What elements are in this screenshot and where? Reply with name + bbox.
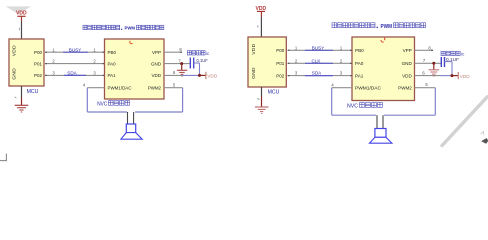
svg-text:VDD: VDD xyxy=(402,74,412,79)
svg-text:VPP: VPP xyxy=(403,48,412,53)
svg-text:SDA: SDA xyxy=(312,71,322,76)
svg-text:BUSY: BUSY xyxy=(69,47,82,52)
svg-text:PWM2: PWM2 xyxy=(148,86,162,91)
svg-text:PWM: PWM xyxy=(381,24,393,30)
svg-text:GND: GND xyxy=(12,68,18,80)
svg-text:P00: P00 xyxy=(34,50,43,55)
svg-text:PWM2: PWM2 xyxy=(398,86,412,91)
svg-text:CLK: CLK xyxy=(312,58,322,63)
svg-text:0.1UF: 0.1UF xyxy=(197,58,209,63)
svg-text:PA0: PA0 xyxy=(108,61,117,66)
svg-text:VDD: VDD xyxy=(251,43,257,54)
svg-text:P02: P02 xyxy=(34,73,43,78)
svg-text:SDA: SDA xyxy=(67,71,77,76)
svg-text:VDD: VDD xyxy=(12,45,18,56)
svg-text:NVC: NVC xyxy=(347,103,358,109)
svg-text:PWM: PWM xyxy=(125,26,136,31)
svg-text:PB0: PB0 xyxy=(108,50,117,55)
svg-text:P01: P01 xyxy=(276,61,285,66)
svg-text:0.1UF: 0.1UF xyxy=(446,57,459,62)
svg-text:GND: GND xyxy=(402,61,413,66)
svg-text:PWM1/DAC: PWM1/DAC xyxy=(355,86,382,91)
svg-text:MCU: MCU xyxy=(27,89,39,95)
svg-text:P00: P00 xyxy=(276,48,285,53)
svg-text:GND: GND xyxy=(251,67,257,79)
svg-text:VPP: VPP xyxy=(152,50,161,55)
svg-text:VDD: VDD xyxy=(460,74,471,80)
svg-text:VDD: VDD xyxy=(207,74,218,80)
svg-text:PWM1/DAC: PWM1/DAC xyxy=(108,86,132,91)
svg-text:P01: P01 xyxy=(34,61,43,66)
svg-text:VDD: VDD xyxy=(151,73,161,78)
svg-text:GND: GND xyxy=(151,61,162,66)
svg-text:PB0: PB0 xyxy=(355,48,364,53)
svg-text:MCU: MCU xyxy=(268,89,280,95)
svg-text:PA1: PA1 xyxy=(108,73,117,78)
svg-text:PA1: PA1 xyxy=(355,74,364,79)
svg-text:P02: P02 xyxy=(276,73,285,78)
svg-text:NVC: NVC xyxy=(97,101,107,107)
svg-text:BUSY: BUSY xyxy=(312,45,325,50)
svg-text:PA0: PA0 xyxy=(355,61,364,66)
